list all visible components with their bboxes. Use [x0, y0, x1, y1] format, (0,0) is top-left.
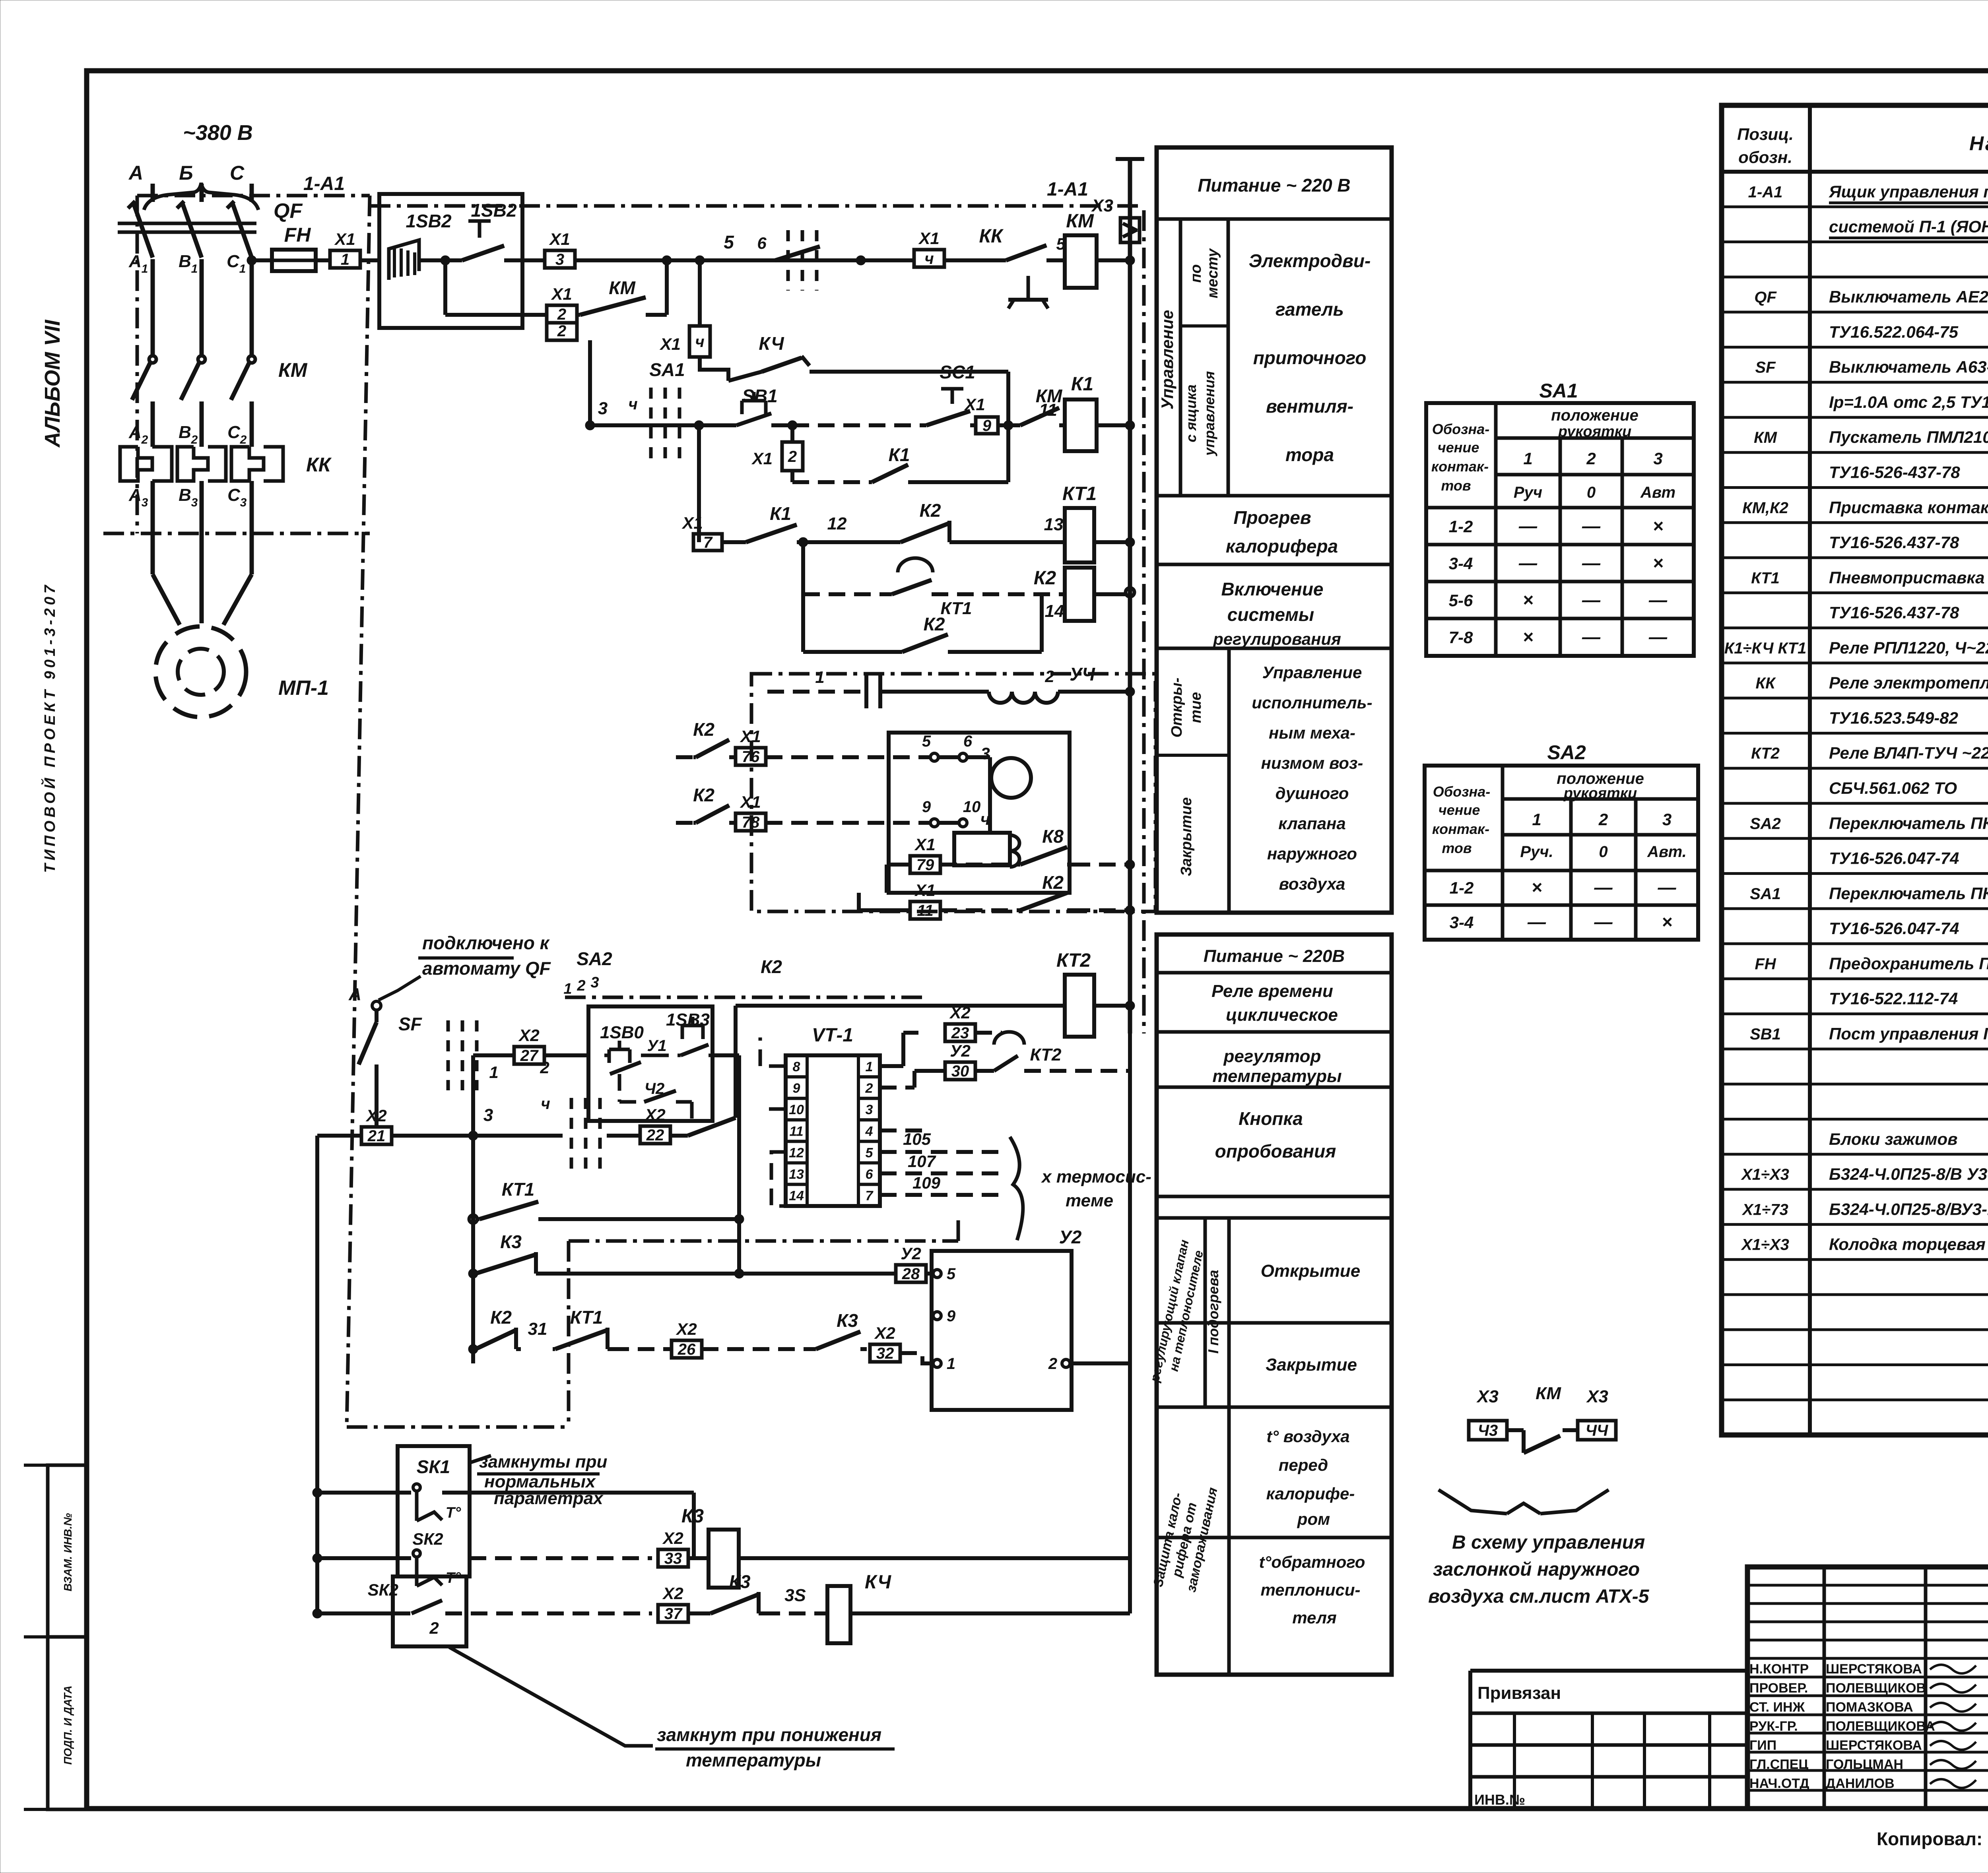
- cabinet 1-A1 bottom dash-dot: [103, 532, 370, 535]
- svg-text:27: 27: [520, 1047, 539, 1064]
- svg-text:обозн.: обозн.: [1738, 148, 1792, 167]
- svg-text:приточного: приточного: [1253, 347, 1367, 368]
- local station 1SB2 box: [379, 194, 522, 328]
- svg-text:Наименование: Наименование: [1969, 132, 1988, 155]
- svg-text:SВ1: SВ1: [742, 386, 777, 406]
- svg-text:3: 3: [555, 251, 564, 268]
- svg-text:SF: SF: [398, 1014, 423, 1034]
- svg-text:КМ: КМ: [1066, 211, 1094, 232]
- svg-text:12: 12: [789, 1145, 804, 1160]
- svg-text:автомату QF: автомату QF: [422, 958, 551, 979]
- U4 pins 5 6: [938, 755, 959, 759]
- svg-text:К1: К1: [770, 503, 791, 524]
- privyazan table: [1470, 1669, 1747, 1673]
- rung KT1 y1364: [693, 534, 722, 551]
- svg-text:У1: У1: [647, 1037, 666, 1055]
- svg-text:7: 7: [866, 1189, 874, 1204]
- svg-text:Х1: Х1: [551, 285, 572, 303]
- svg-text:воздуха см.лист АТХ-5: воздуха см.лист АТХ-5: [1428, 1586, 1650, 1607]
- svg-text:Х2: Х2: [949, 1003, 970, 1022]
- svg-text:С: С: [227, 485, 241, 505]
- svg-text:37: 37: [664, 1605, 683, 1623]
- svg-text:КТ1: КТ1: [1751, 569, 1780, 587]
- brace to valve scheme: [1439, 1490, 1507, 1514]
- svg-text:8: 8: [793, 1059, 800, 1074]
- svg-text:2: 2: [429, 1619, 439, 1637]
- svg-text:5: 5: [724, 232, 734, 252]
- svg-text:~380 В: ~380 В: [183, 121, 253, 145]
- wire phase A: [151, 184, 155, 202]
- svg-text:ч: ч: [628, 396, 637, 413]
- section upr klapan: [1227, 648, 1231, 913]
- svg-text:СТ. ИНЖ: СТ. ИНЖ: [1749, 1700, 1805, 1715]
- svg-text:2: 2: [240, 433, 247, 446]
- svg-text:12: 12: [827, 514, 847, 533]
- node C1 tap: [247, 256, 256, 265]
- svg-text:1-А1: 1-А1: [1748, 183, 1783, 201]
- brace under 380V: [144, 183, 258, 210]
- svg-text:УЧ: УЧ: [1070, 664, 1095, 684]
- svg-text:Х1: Х1: [740, 727, 761, 746]
- svg-text:1: 1: [1532, 810, 1541, 829]
- svg-text:В схему управления: В схему управления: [1452, 1532, 1645, 1553]
- svg-text:9: 9: [793, 1081, 800, 1096]
- svg-text:3: 3: [191, 496, 198, 509]
- SF cabinet dash-dot boundaries: [565, 996, 922, 999]
- svg-text:—: —: [1582, 626, 1601, 647]
- svg-text:Привязан: Привязан: [1477, 1683, 1561, 1703]
- svg-text:SК2: SК2: [368, 1580, 398, 1599]
- svg-text:—: —: [1648, 626, 1668, 647]
- svg-text:А: А: [128, 485, 142, 505]
- svg-text:Ящик управления приточной: Ящик управления приточной: [1829, 182, 1988, 201]
- svg-text:Откры-: Откры-: [1169, 678, 1185, 738]
- svg-text:SА1: SА1: [649, 359, 685, 380]
- svg-text:контак-: контак-: [1431, 458, 1489, 475]
- svg-text:0: 0: [1587, 484, 1596, 501]
- svg-text:9: 9: [947, 1307, 956, 1325]
- svg-text:Х2: Х2: [365, 1106, 386, 1125]
- svg-text:по: по: [1188, 264, 1204, 283]
- svg-text:Х1: Х1: [740, 793, 761, 811]
- svg-text:гатель: гатель: [1276, 299, 1344, 320]
- svg-text:Открытие: Открытие: [1261, 1261, 1361, 1281]
- node bus KM: [1125, 256, 1135, 265]
- svg-text:ТУ16-526.047-74: ТУ16-526.047-74: [1829, 849, 1959, 868]
- svg-text:107: 107: [908, 1152, 936, 1171]
- contactor coil KM: [1046, 258, 1065, 262]
- svg-text:2: 2: [557, 306, 566, 323]
- rung K2 open valve y1905: [676, 755, 693, 759]
- wire SK1 to X2:33: [442, 1491, 694, 1495]
- svg-text:К2: К2: [920, 500, 941, 521]
- svg-text:1SВ2: 1SВ2: [471, 200, 516, 221]
- contact 1SB3 stop: [682, 1024, 703, 1028]
- svg-text:×: ×: [1653, 553, 1664, 573]
- svg-text:13: 13: [1044, 515, 1064, 534]
- section zashchita: [1227, 1407, 1231, 1675]
- function block1 row lines: [1157, 217, 1392, 221]
- parts table row lines: [1722, 206, 1988, 208]
- U4 boundary dash-dot box: [751, 674, 1155, 911]
- svg-text:наружного: наружного: [1267, 844, 1357, 863]
- svg-text:2: 2: [577, 977, 585, 994]
- svg-text:В: В: [179, 252, 191, 271]
- cabinet 1-A1 top dash-dot right part: [370, 204, 1144, 208]
- svg-text:10: 10: [789, 1102, 804, 1117]
- wire 3 from X1:2 down: [588, 340, 592, 425]
- U4 pins 9 10: [938, 821, 959, 825]
- svg-text:Пускатель ПМЛ210004 ~220В: Пускатель ПМЛ210004 ~220В: [1829, 428, 1988, 446]
- svg-text:СБЧ.561.062 ТО: СБЧ.561.062 ТО: [1829, 779, 1957, 797]
- svg-text:положение: положение: [1551, 407, 1639, 424]
- svg-text:23: 23: [951, 1024, 969, 1042]
- svg-text:Х1÷Х3: Х1÷Х3: [1741, 1236, 1789, 1254]
- svg-text:заслонкой наружного: заслонкой наружного: [1433, 1559, 1640, 1580]
- wire out of 1SB0 box: [712, 1053, 739, 1057]
- svg-text:5: 5: [922, 733, 931, 750]
- svg-text:Переключатель ПКУ3-12С-У3 схем: Переключатель ПКУ3-12С-У3 схема 2001: [1829, 884, 1988, 903]
- svg-text:КМ: КМ: [609, 277, 636, 298]
- svg-text:Х1: Х1: [549, 230, 570, 248]
- svg-text:9: 9: [922, 798, 931, 816]
- svg-text:Переключатель ПКУ3-12С-У3 схем: Переключатель ПКУ3-12С-У3 схема 0102: [1829, 814, 1988, 832]
- svg-text:×: ×: [1523, 589, 1534, 610]
- svg-text:КТ1: КТ1: [941, 599, 972, 618]
- svg-text:Пневмоприставка ПВЛ 1104: Пневмоприставка ПВЛ 1104: [1829, 568, 1988, 587]
- svg-text:А: А: [128, 423, 142, 442]
- svg-text:SК1: SК1: [417, 1456, 450, 1477]
- rung K2 31 KT1 y3394: [468, 1344, 478, 1354]
- svg-text:3-4: 3-4: [1450, 913, 1474, 932]
- svg-text:К1÷КЧ КТ1: К1÷КЧ КТ1: [1724, 640, 1807, 657]
- svg-text:Выключатель А63-МУ3 ~380В: Выключатель А63-МУ3 ~380В: [1829, 358, 1988, 376]
- svg-text:К2: К2: [1042, 872, 1064, 893]
- svg-text:ШЕРСТЯКОВА: ШЕРСТЯКОВА: [1826, 1738, 1922, 1753]
- svg-text:ч: ч: [924, 250, 934, 268]
- svg-text:11: 11: [917, 902, 934, 919]
- svg-text:QF: QF: [1754, 289, 1777, 306]
- svg-text:1-А1: 1-А1: [1047, 179, 1088, 200]
- svg-text:t°обратного: t°обратного: [1259, 1553, 1365, 1571]
- relay coil K2: [1065, 568, 1094, 621]
- svg-text:х термосис-: х термосис-: [1041, 1167, 1151, 1187]
- svg-text:ЧЧ: ЧЧ: [1586, 1422, 1608, 1439]
- svg-text:11: 11: [1039, 400, 1057, 420]
- svg-text:Обозна-: Обозна-: [1433, 783, 1490, 800]
- terminal X1:4 on rail1: [914, 250, 944, 267]
- svg-text:Х3: Х3: [1091, 196, 1113, 215]
- svg-text:РУК-ГР.: РУК-ГР.: [1749, 1719, 1798, 1734]
- wire B1: [200, 259, 204, 356]
- switch SF: [375, 1010, 379, 1022]
- rung KT1 contact y1495: [801, 542, 805, 594]
- node after SB1: [788, 421, 797, 430]
- svg-text:перед: перед: [1279, 1456, 1328, 1474]
- svg-text:1: 1: [815, 668, 824, 686]
- svg-text:—: —: [1582, 516, 1601, 536]
- svg-text:КК: КК: [979, 226, 1004, 247]
- branch deck2 rung y2655: [471, 1055, 475, 1136]
- svg-text:К2: К2: [490, 1307, 512, 1328]
- U4 inner solid box: [889, 733, 1070, 893]
- motor MP-1: [155, 626, 246, 717]
- svg-text:ПОМАЗКОВА: ПОМАЗКОВА: [1826, 1700, 1913, 1715]
- svg-text:SА2: SА2: [577, 948, 612, 969]
- svg-text:А: А: [128, 252, 142, 271]
- svg-text:НАЧ.ОТД: НАЧ.ОТД: [1749, 1776, 1809, 1791]
- terminal X1:1: [316, 258, 330, 262]
- svg-text:2: 2: [1048, 1355, 1057, 1373]
- sensor box SK2: [393, 1576, 466, 1646]
- svg-text:системой П-1 (ЯОН5101-2274УХЛЧ: системой П-1 (ЯОН5101-2274УХЛЧ): [1829, 217, 1988, 236]
- svg-text:Закрытие: Закрытие: [1266, 1355, 1357, 1375]
- svg-text:—: —: [1518, 516, 1538, 536]
- svg-text:вентиля-: вентиля-: [1266, 396, 1353, 417]
- svg-text:1: 1: [866, 1059, 873, 1074]
- bypass right vertical: [1006, 372, 1010, 482]
- wire VT-1 pin2: [880, 1086, 914, 1090]
- svg-text:Н.КОНТР: Н.КОНТР: [1749, 1662, 1809, 1677]
- svg-text:14: 14: [1045, 601, 1064, 621]
- svg-text:—: —: [1594, 877, 1613, 898]
- time relay coil KT1: [1065, 508, 1094, 562]
- svg-text:78: 78: [742, 814, 760, 831]
- svg-text:КЧ: КЧ: [865, 1572, 891, 1593]
- svg-text:К2: К2: [693, 719, 714, 740]
- svg-text:У2: У2: [1059, 1227, 1082, 1247]
- svg-text:21: 21: [367, 1127, 386, 1145]
- left bus bottom x798: [315, 1136, 319, 1613]
- svg-text:К1: К1: [1071, 374, 1093, 395]
- svg-text:А: А: [348, 985, 361, 1004]
- svg-text:Х2: Х2: [518, 1026, 539, 1045]
- regulator U2 box: [932, 1251, 1072, 1410]
- svg-text:3: 3: [142, 496, 148, 509]
- svg-text:FН: FН: [1755, 955, 1776, 973]
- svg-text:рукоятки: рукоятки: [1563, 785, 1637, 802]
- svg-text:33: 33: [664, 1550, 682, 1567]
- svg-text:ПОЛЕВЩИКОВ: ПОЛЕВЩИКОВ: [1826, 1681, 1926, 1696]
- svg-text:Реле РПЛ1220, Ч~220В ТУ16-523.: Реле РПЛ1220, Ч~220В ТУ16-523.554-78: [1829, 638, 1988, 657]
- svg-text:душного: душного: [1276, 784, 1349, 803]
- svg-text:26: 26: [678, 1341, 696, 1358]
- rung SK1 y3755: [313, 1488, 322, 1497]
- left margin stamp column: [48, 1465, 87, 1809]
- svg-text:—: —: [1648, 589, 1668, 610]
- relay coil K1: [1065, 399, 1097, 451]
- svg-text:1: 1: [489, 1063, 498, 1082]
- svg-text:QF: QF: [274, 200, 303, 223]
- svg-text:1SВ0: 1SВ0: [600, 1023, 644, 1042]
- svg-text:Руч.: Руч.: [1520, 843, 1553, 861]
- svg-text:t° воздуха: t° воздуха: [1266, 1427, 1349, 1446]
- thermal contact KK NC: [944, 258, 1006, 262]
- svg-text:9: 9: [982, 417, 992, 434]
- svg-text:тов: тов: [1442, 840, 1472, 856]
- svg-text:А: А: [128, 162, 143, 184]
- svg-text:К3: К3: [729, 1571, 751, 1592]
- svg-text:3S: 3S: [784, 1586, 806, 1605]
- svg-text:1: 1: [341, 251, 349, 268]
- svg-text:3: 3: [1653, 449, 1662, 468]
- svg-text:КМ,К2: КМ,К2: [1742, 499, 1788, 517]
- svg-text:КТ1: КТ1: [570, 1307, 603, 1328]
- fuse FH: [252, 258, 272, 262]
- svg-text:2: 2: [865, 1081, 873, 1096]
- wire to KM aux: [1008, 423, 1018, 427]
- svg-text:3: 3: [1662, 810, 1672, 829]
- svg-text:SС1: SС1: [940, 362, 975, 382]
- svg-text:К2: К2: [924, 614, 945, 634]
- svg-text:рукоятки: рукоятки: [1558, 423, 1631, 440]
- contact K2 rising: [670, 1134, 688, 1138]
- svg-text:Обозна-: Обозна-: [1432, 421, 1489, 437]
- terminal U2:28: [896, 1265, 926, 1282]
- svg-text:3-4: 3-4: [1449, 554, 1473, 573]
- terminal X1:9: [976, 417, 998, 434]
- rung to X2:33 K3: [470, 1556, 652, 1560]
- svg-text:3: 3: [866, 1102, 873, 1117]
- seal wire in 1SB2: [443, 260, 447, 315]
- svg-text:ПОЛЕВЩИКОВА: ПОЛЕВЩИКОВА: [1826, 1719, 1935, 1734]
- rung K2 y2290: [857, 893, 861, 910]
- svg-text:КТ2: КТ2: [1751, 745, 1780, 762]
- svg-text:ром: ром: [1297, 1510, 1330, 1528]
- svg-text:SК2: SК2: [412, 1530, 443, 1548]
- svg-text:79: 79: [916, 856, 934, 874]
- seal wire up: [665, 260, 669, 315]
- svg-text:контак-: контак-: [1432, 821, 1489, 837]
- svg-text:чение: чение: [1438, 439, 1479, 456]
- svg-text:28: 28: [902, 1265, 920, 1283]
- svg-text:К2: К2: [693, 785, 714, 805]
- sensor station box 1SB0 1SB3: [588, 1006, 712, 1121]
- svg-text:Закрытие: Закрытие: [1178, 797, 1195, 876]
- svg-text:ПОДП. И ДАТА: ПОДП. И ДАТА: [62, 1685, 74, 1764]
- capacitor symbol in U4 rung: [864, 675, 868, 708]
- svg-text:SА2: SА2: [1750, 815, 1781, 832]
- U4 inner motor circle: [991, 758, 1031, 798]
- svg-text:6: 6: [963, 733, 973, 750]
- svg-text:Предохранитель ПРС-6У3-П Iпл.в: Предохранитель ПРС-6У3-П Iпл.вст ЧА: [1829, 954, 1988, 973]
- wire A1: [151, 259, 155, 356]
- svg-text:С: С: [230, 162, 245, 184]
- svg-text:ТУ16-526-437-78: ТУ16-526-437-78: [1829, 463, 1960, 482]
- svg-text:замкнут при понижения: замкнут при понижения: [657, 1724, 881, 1745]
- svg-text:109: 109: [912, 1173, 941, 1192]
- svg-text:2: 2: [1586, 449, 1596, 468]
- svg-text:ТУ16-526.437-78: ТУ16-526.437-78: [1829, 603, 1959, 622]
- svg-text:5: 5: [866, 1145, 874, 1160]
- svg-text:1SВ2: 1SВ2: [406, 211, 451, 231]
- svg-text:температуры: температуры: [1212, 1066, 1342, 1086]
- U2 pin 5: [933, 1270, 941, 1278]
- svg-text:Питание ~ 220В: Питание ~ 220В: [1204, 946, 1345, 966]
- svg-text:13: 13: [789, 1167, 804, 1182]
- connector X3 on bus: [1120, 218, 1140, 242]
- U2 pin 9: [933, 1312, 941, 1320]
- function block2 row lines: [1157, 971, 1392, 975]
- svg-text:Позиц.: Позиц.: [1737, 125, 1794, 143]
- U4 drive rung y1740: [767, 690, 866, 694]
- svg-text:теме: теме: [1066, 1191, 1113, 1210]
- terminal X2:21: [361, 1127, 392, 1144]
- node rail1: [856, 256, 866, 265]
- section upravlenie columns: [1179, 219, 1182, 496]
- svg-text:опробования: опробования: [1215, 1141, 1336, 1161]
- svg-text:1-А1: 1-А1: [303, 173, 345, 194]
- svg-text:105: 105: [903, 1130, 931, 1148]
- contact K2 NC rung6: [803, 540, 898, 544]
- svg-text:VТ-1: VТ-1: [812, 1025, 853, 1046]
- rung KT2 feed y2530: [736, 1004, 1065, 1008]
- brace thermosystem: [1010, 1137, 1023, 1240]
- svg-text:30: 30: [951, 1063, 969, 1080]
- svg-text:3: 3: [590, 974, 599, 991]
- svg-text:4: 4: [865, 1124, 873, 1139]
- svg-text:SА1: SА1: [1750, 885, 1781, 903]
- svg-text:SВ1: SВ1: [1750, 1026, 1781, 1043]
- svg-text:тора: тора: [1285, 444, 1334, 465]
- contact K1 seal: [870, 480, 872, 484]
- svg-text:—: —: [1658, 877, 1677, 898]
- svg-text:2: 2: [1044, 667, 1054, 686]
- terminal X1:3: [522, 258, 545, 262]
- svg-text:2: 2: [788, 448, 797, 465]
- svg-text:месту: месту: [1204, 248, 1221, 299]
- svg-text:температуры: температуры: [686, 1750, 821, 1770]
- terminal X2:27: [514, 1047, 544, 1064]
- svg-text:ПРОВЕР.: ПРОВЕР.: [1749, 1681, 1808, 1696]
- svg-text:системы: системы: [1227, 604, 1314, 625]
- svg-text:—: —: [1582, 553, 1601, 573]
- svg-text:3: 3: [598, 399, 608, 418]
- svg-text:МП-1: МП-1: [278, 677, 329, 700]
- terminal circle A SF: [372, 1001, 381, 1010]
- svg-text:ТУ16-526.437-78: ТУ16-526.437-78: [1829, 533, 1959, 552]
- wire phase B: [200, 184, 204, 202]
- rung start SB1 y1070: [585, 421, 595, 430]
- thermal relay KK heaters: [120, 447, 152, 481]
- svg-text:Колодка торцевая КТ5У ТУ16-526: Колодка торцевая КТ5У ТУ16-526,462-79: [1829, 1235, 1988, 1254]
- svg-text:Х1: Х1: [681, 514, 703, 532]
- svg-text:Х1: Х1: [918, 229, 939, 248]
- svg-text:FН: FН: [284, 224, 311, 246]
- terminal X2:32: [870, 1344, 900, 1362]
- svg-text:с ящика: с ящика: [1183, 384, 1199, 442]
- left bus lower x1190: [471, 1136, 475, 1363]
- svg-text:Х2: Х2: [874, 1324, 895, 1342]
- svg-text:калорифе-: калорифе-: [1266, 1484, 1355, 1503]
- svg-text:6: 6: [757, 234, 767, 252]
- leader to low temperature note: [449, 1647, 653, 1746]
- bus top tick: [1116, 157, 1144, 161]
- svg-text:воздуха: воздуха: [1279, 874, 1345, 893]
- function table block1 outer: [1157, 147, 1392, 913]
- svg-text:ТУ16-522.112-74: ТУ16-522.112-74: [1829, 989, 1958, 1008]
- svg-text:6: 6: [866, 1167, 874, 1182]
- feeder vertical to KT1 rung: [697, 425, 701, 542]
- contact KM seal: [578, 313, 580, 317]
- svg-text:Пост управления ПКЕ-122-2У3 ТУ: Пост управления ПКЕ-122-2У3 ТУ16-526.216…: [1829, 1024, 1988, 1043]
- svg-text:В: В: [179, 485, 191, 505]
- svg-text:1: 1: [563, 981, 572, 997]
- rung KT1 NO y3067: [469, 1215, 477, 1223]
- node to deck2: [468, 1131, 478, 1140]
- svg-text:тов: тов: [1441, 477, 1471, 494]
- svg-text:Реле времени: Реле времени: [1211, 981, 1333, 1001]
